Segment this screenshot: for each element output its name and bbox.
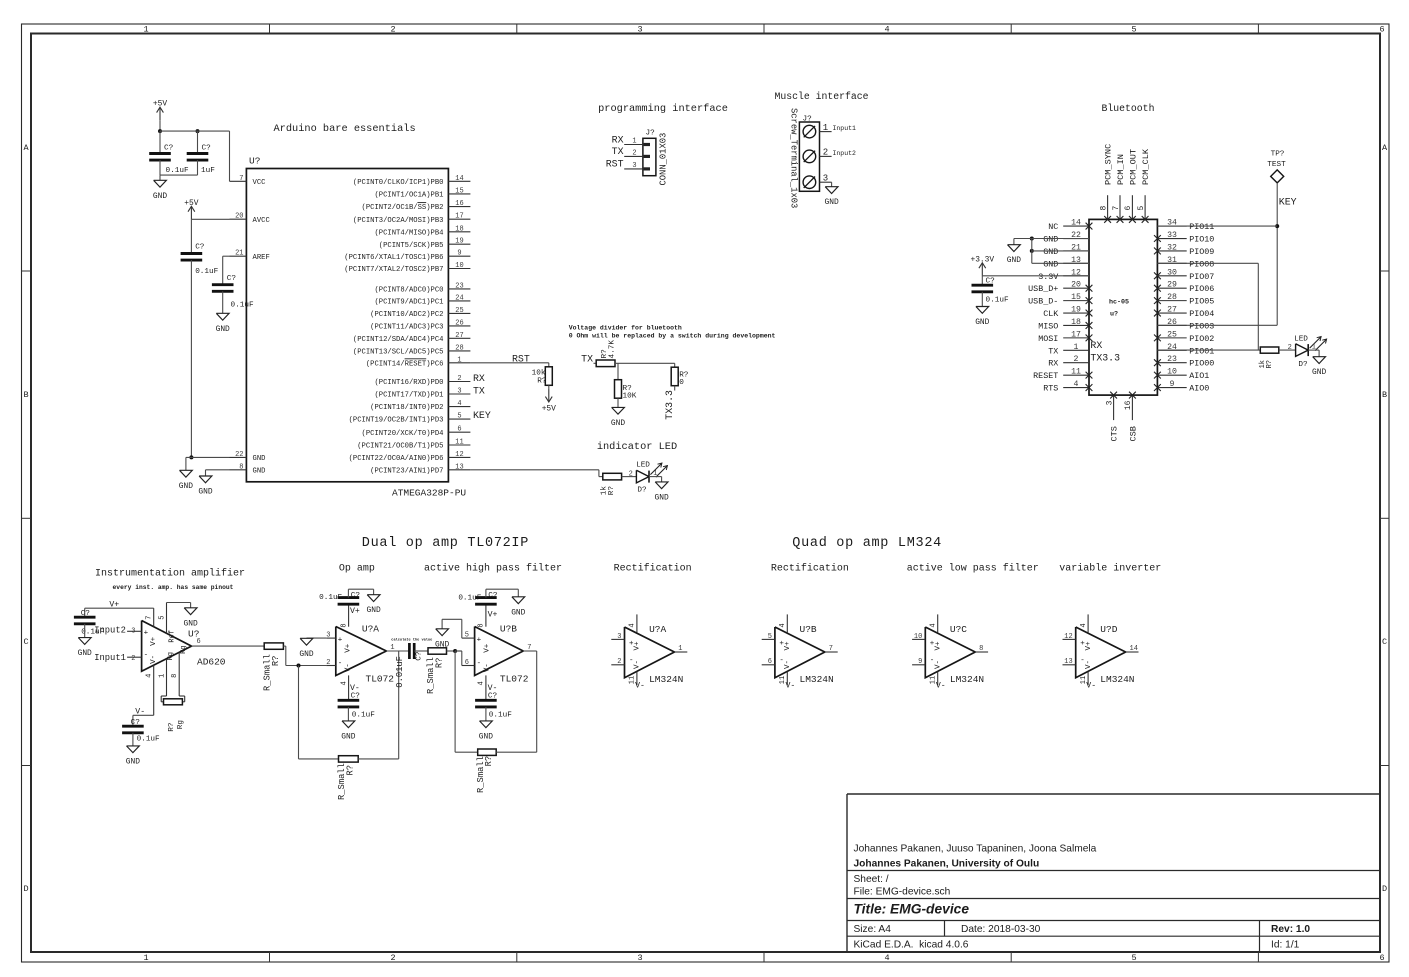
svg-text:2: 2 xyxy=(326,659,330,667)
svg-text:GND: GND xyxy=(1312,368,1326,377)
svg-text:GND: GND xyxy=(1043,235,1058,245)
svg-text:C?: C? xyxy=(131,719,141,727)
svg-text:C?: C? xyxy=(164,145,174,153)
svg-text:13: 13 xyxy=(1064,658,1072,666)
svg-text:(PCINT8/ADC0)PC0: (PCINT8/ADC0)PC0 xyxy=(374,287,443,295)
svg-text:+: + xyxy=(477,636,482,644)
svg-text:u?: u? xyxy=(1110,311,1118,319)
svg-text:GND: GND xyxy=(198,488,212,497)
svg-text:TX: TX xyxy=(1048,346,1058,356)
svg-text:PIO10: PIO10 xyxy=(1189,235,1214,245)
svg-text:12: 12 xyxy=(1064,633,1072,641)
svg-text:ATMEGA328P-PU: ATMEGA328P-PU xyxy=(392,488,466,499)
svg-text:CTS: CTS xyxy=(1110,426,1120,441)
svg-text:2: 2 xyxy=(617,658,621,666)
svg-text:PIO00: PIO00 xyxy=(1189,359,1214,369)
svg-text:(PCINT11/ADC3)PC3: (PCINT11/ADC3)PC3 xyxy=(370,324,443,332)
svg-text:indicator LED: indicator LED xyxy=(597,441,677,453)
svg-text:14: 14 xyxy=(455,175,463,183)
svg-text:GND: GND xyxy=(611,419,625,428)
svg-text:3: 3 xyxy=(131,627,135,635)
svg-text:25: 25 xyxy=(455,307,463,315)
svg-text:16: 16 xyxy=(455,200,463,208)
svg-text:D: D xyxy=(1382,884,1387,894)
svg-text:V+: V+ xyxy=(345,643,353,653)
svg-text:RESET: RESET xyxy=(1033,371,1058,381)
svg-text:KiCad E.D.A. kicad 4.0.6: KiCad E.D.A. kicad 4.0.6 xyxy=(854,940,969,951)
svg-text:18: 18 xyxy=(1071,318,1081,327)
svg-text:J?: J? xyxy=(646,129,656,137)
svg-text:GND: GND xyxy=(183,619,197,628)
svg-text:+3.3V: +3.3V xyxy=(970,255,994,264)
svg-text:TX: TX xyxy=(612,146,624,157)
svg-text:29: 29 xyxy=(1167,281,1177,290)
svg-text:VCC: VCC xyxy=(253,179,267,187)
svg-text:6: 6 xyxy=(768,658,772,666)
svg-text:4: 4 xyxy=(1074,380,1079,389)
svg-text:3: 3 xyxy=(1105,400,1114,405)
svg-text:U?D: U?D xyxy=(1100,624,1117,635)
svg-text:4: 4 xyxy=(478,681,486,685)
svg-text:B: B xyxy=(1382,390,1387,400)
svg-text:V-: V- xyxy=(483,663,491,672)
svg-text:4: 4 xyxy=(457,400,461,408)
svg-text:15: 15 xyxy=(455,187,463,195)
svg-text:R?: R? xyxy=(1266,360,1274,368)
svg-text:RX: RX xyxy=(1048,359,1058,369)
svg-text:CONN_01X03: CONN_01X03 xyxy=(659,133,669,186)
svg-text:-: - xyxy=(144,651,149,659)
svg-text:8: 8 xyxy=(979,645,983,653)
svg-text:USB_D-: USB_D- xyxy=(1028,297,1058,307)
svg-text:LM324N: LM324N xyxy=(800,674,834,685)
svg-text:1: 1 xyxy=(1074,343,1079,352)
svg-text:C?: C? xyxy=(227,275,237,283)
svg-text:28: 28 xyxy=(1167,293,1177,302)
svg-text:19: 19 xyxy=(455,238,463,246)
svg-text:12: 12 xyxy=(455,451,463,459)
svg-text:8: 8 xyxy=(478,623,486,627)
svg-text:(PCINT19/OC2B/INT1)PD3: (PCINT19/OC2B/INT1)PD3 xyxy=(349,417,444,425)
svg-text:6: 6 xyxy=(465,659,469,667)
svg-text:RTS: RTS xyxy=(1043,384,1058,394)
svg-text:RST: RST xyxy=(606,159,624,170)
svg-text:V-: V- xyxy=(935,660,943,669)
svg-text:(PCINT5/SCK)PB5: (PCINT5/SCK)PB5 xyxy=(379,242,444,250)
svg-text:V+: V+ xyxy=(1085,641,1093,651)
svg-text:(PCINT22/OC0A/AIN0)PD6: (PCINT22/OC0A/AIN0)PD6 xyxy=(349,455,444,463)
svg-text:26: 26 xyxy=(455,319,463,327)
svg-text:(PCINT12/SDA/ADC4)PC4: (PCINT12/SDA/ADC4)PC4 xyxy=(353,336,444,344)
svg-text:D: D xyxy=(23,884,28,894)
svg-text:22: 22 xyxy=(235,451,243,459)
svg-text:PIO06: PIO06 xyxy=(1189,284,1214,294)
svg-text:24: 24 xyxy=(455,294,463,302)
svg-text:R?: R? xyxy=(537,378,547,386)
svg-text:GND: GND xyxy=(824,198,838,207)
svg-text:(PCINT3/OC2A/MOSI)PB3: (PCINT3/OC2A/MOSI)PB3 xyxy=(353,217,444,225)
svg-text:PIO11: PIO11 xyxy=(1189,222,1214,232)
svg-text:V+: V+ xyxy=(350,607,360,616)
svg-text:0.1uF: 0.1uF xyxy=(352,711,375,719)
svg-text:Op amp: Op amp xyxy=(339,564,375,575)
svg-text:R?: R? xyxy=(168,722,176,732)
svg-text:0.1uF: 0.1uF xyxy=(319,594,342,602)
svg-text:Input2: Input2 xyxy=(833,150,857,157)
svg-text:(PCINT4/MISO)PB4: (PCINT4/MISO)PB4 xyxy=(374,229,443,237)
svg-text:4: 4 xyxy=(1080,623,1088,627)
svg-text:10: 10 xyxy=(1167,368,1177,377)
svg-text:Rg: Rg xyxy=(180,645,188,653)
svg-text:7: 7 xyxy=(239,175,243,183)
svg-text:4: 4 xyxy=(779,623,787,627)
svg-text:6: 6 xyxy=(197,638,201,646)
svg-text:GND: GND xyxy=(975,318,989,327)
svg-text:2: 2 xyxy=(390,953,395,963)
svg-text:0: 0 xyxy=(679,379,684,387)
svg-text:30: 30 xyxy=(1167,268,1177,277)
svg-text:7: 7 xyxy=(527,644,531,652)
svg-text:GND: GND xyxy=(253,455,266,463)
svg-text:V-: V- xyxy=(1085,660,1093,669)
svg-text:NC: NC xyxy=(1048,222,1058,232)
svg-text:V+: V+ xyxy=(109,601,119,610)
svg-text:Size: A4: Size: A4 xyxy=(854,924,892,935)
svg-text:GND: GND xyxy=(341,732,355,741)
svg-text:(PCINT16/RXD)PD0: (PCINT16/RXD)PD0 xyxy=(374,379,443,387)
svg-text:+5V: +5V xyxy=(184,199,198,208)
svg-text:18: 18 xyxy=(455,225,463,233)
svg-text:Id: 1/1: Id: 1/1 xyxy=(1271,940,1300,951)
svg-text:+5V: +5V xyxy=(153,100,167,109)
svg-text:(PCINT17/TXD)PD1: (PCINT17/TXD)PD1 xyxy=(374,392,443,400)
svg-text:C?: C? xyxy=(488,592,498,600)
svg-text:U?A: U?A xyxy=(362,623,379,634)
svg-text:Arduino bare essentials: Arduino bare essentials xyxy=(274,123,416,135)
svg-text:RX: RX xyxy=(612,134,624,145)
svg-text:KEY: KEY xyxy=(473,410,491,421)
svg-text:7: 7 xyxy=(829,645,833,653)
svg-text:1: 1 xyxy=(390,644,394,652)
svg-text:10k: 10k xyxy=(532,370,546,378)
svg-text:PIO01: PIO01 xyxy=(1189,346,1214,356)
svg-text:5: 5 xyxy=(465,632,469,640)
svg-text:0.1uF: 0.1uF xyxy=(166,167,189,175)
svg-text:(PCINT7/XTAL2/TOSC2)PB7: (PCINT7/XTAL2/TOSC2)PB7 xyxy=(344,266,443,274)
svg-text:C?: C? xyxy=(195,244,205,252)
svg-text:1: 1 xyxy=(823,123,828,133)
svg-text:1: 1 xyxy=(632,138,636,146)
svg-text:+5V: +5V xyxy=(542,405,556,414)
svg-text:+: + xyxy=(338,636,343,644)
svg-text:(PCINT21/OC0B/T1)PD5: (PCINT21/OC0B/T1)PD5 xyxy=(357,443,443,451)
svg-text:GND: GND xyxy=(216,325,230,334)
svg-text:PCM_SYNC: PCM_SYNC xyxy=(1104,144,1114,185)
svg-text:(PCINT10/ADC2)PC2: (PCINT10/ADC2)PC2 xyxy=(370,311,443,319)
svg-text:V-: V- xyxy=(635,682,645,691)
svg-text:AIO0: AIO0 xyxy=(1189,384,1209,394)
svg-text:2: 2 xyxy=(632,150,636,158)
svg-text:C: C xyxy=(1382,637,1387,647)
svg-text:4: 4 xyxy=(884,953,889,963)
svg-text:C: C xyxy=(23,637,28,647)
svg-text:TX3.3: TX3.3 xyxy=(664,390,675,420)
svg-text:3: 3 xyxy=(637,953,642,963)
svg-text:Input1: Input1 xyxy=(94,653,126,663)
svg-text:2: 2 xyxy=(1074,355,1079,364)
svg-text:Dual op amp TL072IP: Dual op amp TL072IP xyxy=(362,536,529,551)
svg-text:33: 33 xyxy=(1167,231,1177,240)
svg-text:6: 6 xyxy=(1124,206,1133,211)
svg-text:GND: GND xyxy=(78,649,92,658)
svg-text:3: 3 xyxy=(823,173,828,183)
svg-text:Ref: Ref xyxy=(168,630,176,643)
svg-text:10: 10 xyxy=(914,633,922,641)
svg-text:0.1uF: 0.1uF xyxy=(458,594,481,602)
svg-text:25: 25 xyxy=(1167,330,1177,339)
svg-text:-: - xyxy=(338,660,343,668)
svg-text:D?: D? xyxy=(1298,361,1308,369)
svg-text:V-: V- xyxy=(1086,682,1096,691)
svg-text:0.01uF: 0.01uF xyxy=(395,656,405,688)
svg-text:17: 17 xyxy=(455,213,463,221)
svg-text:AIO1: AIO1 xyxy=(1189,371,1209,381)
svg-text:3: 3 xyxy=(617,633,621,641)
svg-text:2: 2 xyxy=(390,25,395,35)
svg-text:Voltage divider for bluetooth: Voltage divider for bluetooth xyxy=(569,325,682,332)
svg-text:LED: LED xyxy=(636,461,650,469)
svg-text:V+: V+ xyxy=(784,641,792,651)
svg-text:6: 6 xyxy=(1379,953,1384,963)
svg-text:21: 21 xyxy=(235,250,243,258)
svg-text:GND: GND xyxy=(654,493,668,502)
svg-text:3.3V: 3.3V xyxy=(1038,272,1058,282)
svg-text:R?: R? xyxy=(484,756,494,767)
svg-text:7: 7 xyxy=(146,615,154,619)
svg-text:LM324N: LM324N xyxy=(649,674,683,685)
svg-text:Rectification: Rectification xyxy=(614,563,692,575)
svg-text:R?: R? xyxy=(345,765,355,776)
svg-text:A: A xyxy=(1382,143,1388,153)
svg-text:4: 4 xyxy=(884,25,889,35)
svg-text:5: 5 xyxy=(1131,953,1136,963)
svg-text:13: 13 xyxy=(455,463,463,471)
svg-text:GND: GND xyxy=(126,757,140,766)
svg-text:GND: GND xyxy=(1007,256,1021,265)
svg-text:3: 3 xyxy=(632,162,636,170)
svg-text:Input1: Input1 xyxy=(833,125,857,132)
svg-text:14: 14 xyxy=(1130,645,1138,653)
svg-text:variable inverter: variable inverter xyxy=(1059,563,1161,575)
svg-text:4: 4 xyxy=(629,623,637,627)
svg-text:PCM_CLK: PCM_CLK xyxy=(1141,148,1151,185)
svg-text:(PCINT20/XCK/T0)PD4: (PCINT20/XCK/T0)PD4 xyxy=(362,430,444,438)
svg-text:4.7K: 4.7K xyxy=(609,340,617,359)
svg-text:10K: 10K xyxy=(623,393,637,401)
svg-text:V-: V- xyxy=(150,655,158,664)
svg-text:TEST: TEST xyxy=(1267,161,1286,169)
svg-text:5: 5 xyxy=(457,413,461,421)
svg-text:U?B: U?B xyxy=(500,623,517,634)
svg-text:5: 5 xyxy=(1137,206,1146,211)
svg-text:27: 27 xyxy=(1167,306,1177,315)
svg-text:(PCINT0/CLKO/ICP1)PB0: (PCINT0/CLKO/ICP1)PB0 xyxy=(353,179,444,187)
svg-text:R?: R? xyxy=(435,658,445,669)
svg-text:2: 2 xyxy=(131,655,135,663)
svg-text:17: 17 xyxy=(1071,330,1081,339)
svg-text:Screw_Terminal_1x03: Screw_Terminal_1x03 xyxy=(789,108,799,208)
svg-text:C?: C? xyxy=(81,610,91,618)
svg-text:1: 1 xyxy=(457,356,461,364)
svg-text:2: 2 xyxy=(823,148,828,158)
svg-text:(PCINT13/SCL/ADC5)PC5: (PCINT13/SCL/ADC5)PC5 xyxy=(353,349,444,357)
svg-text:V+: V+ xyxy=(935,641,943,651)
svg-text:-: - xyxy=(477,660,482,668)
svg-text:4: 4 xyxy=(930,623,938,627)
svg-text:TL072: TL072 xyxy=(366,673,395,684)
svg-text:MISO: MISO xyxy=(1038,321,1058,331)
svg-text:active low pass filter: active low pass filter xyxy=(907,563,1039,575)
svg-text:C?: C? xyxy=(351,592,361,600)
svg-text:GND: GND xyxy=(479,732,493,741)
svg-text:D?: D? xyxy=(637,487,647,495)
svg-text:C?: C? xyxy=(415,651,423,661)
svg-text:GND: GND xyxy=(1043,259,1058,269)
svg-text:(PCINT2/OC1B/SS)PB2: (PCINT2/OC1B/SS)PB2 xyxy=(362,204,444,212)
svg-text:R?: R? xyxy=(271,656,281,667)
svg-text:GND: GND xyxy=(179,482,193,491)
svg-text:CSB: CSB xyxy=(1128,426,1138,441)
svg-text:2: 2 xyxy=(457,375,461,383)
svg-text:27: 27 xyxy=(455,332,463,340)
svg-text:PCM_IN: PCM_IN xyxy=(1116,154,1126,185)
svg-text:PIO09: PIO09 xyxy=(1189,247,1214,257)
svg-text:3: 3 xyxy=(457,388,461,396)
svg-text:5: 5 xyxy=(158,615,166,619)
svg-text:RX: RX xyxy=(473,373,485,384)
svg-text:8: 8 xyxy=(340,623,348,627)
svg-text:LED: LED xyxy=(1294,336,1308,344)
svg-text:Johannes Pakanen, Juuso Tapani: Johannes Pakanen, Juuso Tapaninen, Joona… xyxy=(854,844,1097,855)
svg-text:KEY: KEY xyxy=(1279,197,1297,208)
svg-text:U?C: U?C xyxy=(950,624,967,635)
svg-text:TX: TX xyxy=(581,354,593,365)
svg-text:15: 15 xyxy=(1071,293,1081,302)
svg-text:C?: C? xyxy=(202,145,212,153)
svg-text:AREF: AREF xyxy=(253,254,270,262)
svg-text:Rev: 1.0: Rev: 1.0 xyxy=(1271,924,1310,935)
svg-text:(PCINT14/RESET)PC6: (PCINT14/RESET)PC6 xyxy=(366,360,444,368)
svg-text:LM324N: LM324N xyxy=(1100,674,1134,685)
svg-text:PIO05: PIO05 xyxy=(1189,297,1214,307)
svg-text:GND: GND xyxy=(1043,247,1058,257)
svg-text:0.1uF: 0.1uF xyxy=(137,736,160,744)
svg-text:+: + xyxy=(144,629,149,637)
svg-text:TX: TX xyxy=(473,386,485,397)
svg-text:every inst. amp. has same pino: every inst. amp. has same pinout xyxy=(113,584,234,591)
svg-text:Date: 2018-03-30: Date: 2018-03-30 xyxy=(961,924,1041,935)
svg-text:USB_D+: USB_D+ xyxy=(1028,284,1058,294)
svg-text:0.1uF: 0.1uF xyxy=(231,302,254,310)
svg-text:TL072: TL072 xyxy=(500,673,529,684)
svg-text:1: 1 xyxy=(143,25,148,35)
svg-text:V-: V- xyxy=(786,682,796,691)
svg-text:(PCINT18/INT0)PD2: (PCINT18/INT0)PD2 xyxy=(370,404,443,412)
svg-text:20: 20 xyxy=(1071,281,1081,290)
svg-text:16: 16 xyxy=(1124,400,1133,410)
svg-text:V+: V+ xyxy=(150,636,158,646)
svg-text:1: 1 xyxy=(158,674,166,678)
svg-text:TP?: TP? xyxy=(1271,151,1285,159)
svg-text:MOSI: MOSI xyxy=(1038,334,1058,344)
svg-text:V-: V- xyxy=(784,660,792,669)
svg-text:Quad op amp LM324: Quad op amp LM324 xyxy=(792,536,942,551)
svg-text:programming interface: programming interface xyxy=(598,103,728,115)
svg-text:2: 2 xyxy=(1288,344,1292,352)
svg-text:3: 3 xyxy=(637,25,642,35)
svg-text:GND: GND xyxy=(253,468,266,476)
svg-text:GND: GND xyxy=(511,608,525,617)
svg-text:B: B xyxy=(23,390,28,400)
svg-text:GND: GND xyxy=(153,192,167,201)
svg-text:V-: V- xyxy=(936,682,946,691)
svg-text:19: 19 xyxy=(1071,306,1081,315)
svg-text:0.1uF: 0.1uF xyxy=(195,268,218,276)
svg-text:Sheet: /: Sheet: / xyxy=(854,874,889,885)
svg-text:V-: V- xyxy=(135,708,145,717)
svg-text:0 Ohm will be replaced by a sw: 0 Ohm will be replaced by a switch durin… xyxy=(569,333,776,340)
svg-text:U?A: U?A xyxy=(649,624,666,635)
svg-text:5: 5 xyxy=(768,633,772,641)
svg-text:PIO03: PIO03 xyxy=(1189,321,1214,331)
svg-text:U?: U? xyxy=(249,156,260,167)
svg-text:28: 28 xyxy=(455,344,463,352)
svg-text:TX3.3: TX3.3 xyxy=(1090,353,1120,364)
svg-text:PIO08: PIO08 xyxy=(1189,259,1214,269)
svg-text:PCM_OUT: PCM_OUT xyxy=(1128,149,1138,185)
svg-text:GND: GND xyxy=(435,640,449,649)
svg-text:1uF: 1uF xyxy=(201,167,215,175)
svg-text:V+: V+ xyxy=(634,641,642,651)
svg-text:V+: V+ xyxy=(483,643,491,653)
svg-text:PIO02: PIO02 xyxy=(1189,334,1214,344)
svg-text:2: 2 xyxy=(629,471,633,479)
svg-text:V+: V+ xyxy=(488,611,498,620)
svg-text:8: 8 xyxy=(239,463,243,471)
svg-text:AVCC: AVCC xyxy=(253,217,271,225)
svg-text:RST: RST xyxy=(512,353,530,364)
svg-text:11: 11 xyxy=(1071,368,1081,377)
svg-text:0.1uF: 0.1uF xyxy=(489,711,512,719)
svg-text:6: 6 xyxy=(457,426,461,434)
svg-text:9: 9 xyxy=(1170,380,1175,389)
svg-text:(PCINT1/OC1A)PB1: (PCINT1/OC1A)PB1 xyxy=(374,192,443,200)
svg-text:RX: RX xyxy=(1090,340,1102,351)
svg-text:V-: V- xyxy=(634,660,642,669)
svg-text:5: 5 xyxy=(1131,25,1136,35)
svg-text:32: 32 xyxy=(1167,243,1177,252)
svg-text:U?B: U?B xyxy=(800,624,817,635)
svg-text:8: 8 xyxy=(171,674,179,678)
svg-text:23: 23 xyxy=(1167,355,1177,364)
svg-text:Johannes Pakanen, University o: Johannes Pakanen, University of Oulu xyxy=(854,859,1040,870)
svg-text:CLK: CLK xyxy=(1043,309,1059,319)
svg-text:V-: V- xyxy=(345,663,353,672)
svg-text:A: A xyxy=(23,143,29,153)
svg-text:(PCINT23/AIN1)PD7: (PCINT23/AIN1)PD7 xyxy=(370,467,443,475)
svg-text:1: 1 xyxy=(143,953,148,963)
svg-text:1: 1 xyxy=(678,645,682,653)
